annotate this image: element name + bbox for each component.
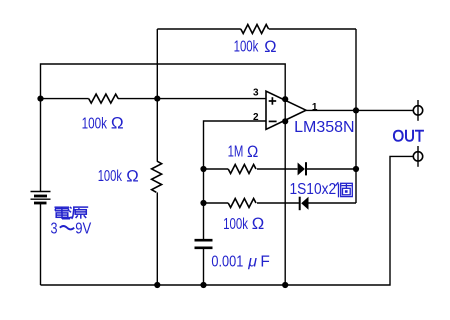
wire op-amp V- down to ground: [284, 121, 286, 285]
svg-text:1: 1: [312, 102, 318, 113]
wire 1M branch: [204, 168, 357, 170]
value label R3 100k: [234, 37, 277, 56]
terminal J1 OUT hot: [413, 100, 422, 121]
node divider tap left: [37, 96, 43, 102]
svg-text:1S10x2: 1S10x2: [290, 181, 337, 198]
resistor R1 100k (divider upper): [89, 94, 119, 103]
svg-text:Ω: Ω: [126, 166, 139, 185]
node ground op-amp: [282, 282, 288, 288]
capacitor C1 0.001uF: [195, 240, 213, 248]
diode D2 (100k branch, anode right): [300, 197, 309, 211]
value label R4 1M: [228, 142, 259, 161]
label 3-9V: [51, 221, 92, 238]
wire 100k branch: [204, 202, 357, 204]
svg-text:0.001: 0.001: [211, 253, 243, 270]
svg-text:9V: 9V: [75, 221, 92, 238]
wire pin2 to node C: [204, 121, 266, 240]
wire op-amp V+ supply through triangle: [284, 100, 286, 121]
node diode D1 junction: [353, 166, 359, 172]
resistor R5 100k (discharge branch): [228, 199, 256, 208]
diode D1 (1M branch, anode left): [298, 162, 306, 175]
resistor R4 1M: [228, 165, 256, 174]
terminal J2 OUT ground: [413, 146, 422, 167]
svg-text:100k: 100k: [82, 116, 108, 133]
kanji DEN: [55, 207, 70, 219]
wire node C below capacitor to ground: [203, 248, 205, 285]
svg-text:1M: 1M: [228, 143, 244, 160]
node ground C: [200, 282, 206, 288]
svg-text:Ω: Ω: [247, 142, 258, 161]
node C 1M junction: [200, 166, 206, 172]
wire right vertical (output to diodes): [355, 29, 357, 203]
node V+ at op-amp: [282, 96, 288, 102]
kanji KO (piece counter) drawn strokes: [335, 182, 352, 197]
svg-text:100k: 100k: [223, 216, 248, 233]
op-amp U1 LM358N triangle: [266, 91, 306, 129]
svg-text:3: 3: [51, 221, 58, 238]
label D1 D2 1S10x2pcs: [290, 181, 353, 198]
svg-text:OUT: OUT: [393, 128, 425, 146]
svg-text:F: F: [260, 253, 269, 270]
wire top feedback rail: [157, 28, 356, 30]
value label R5 100k: [223, 214, 264, 233]
svg-text:Ω: Ω: [264, 37, 276, 56]
value label R2 100k: [98, 166, 139, 185]
wire op-amp output to OUT terminal: [306, 109, 413, 111]
node C 100k junction: [200, 200, 206, 206]
node V- at op-amp: [282, 118, 288, 124]
node A junction: [154, 96, 160, 102]
resistor R3 100k (positive feedback): [241, 25, 269, 34]
svg-text:Ω: Ω: [111, 114, 124, 133]
wire left vertical upper (battery + to top rail): [41, 64, 286, 192]
svg-text:100k: 100k: [98, 168, 122, 185]
battery BT1: [31, 192, 51, 204]
label power source (kanji DENGEN): [55, 207, 89, 219]
kanji GEN: [69, 207, 89, 219]
wire left vertical lower (battery - to ground rail): [40, 203, 42, 285]
resistor R2 100k (divider lower, vertical): [152, 161, 162, 192]
node output junction: [353, 107, 359, 113]
svg-text:Ω: Ω: [252, 214, 265, 233]
value label R1 100k: [82, 114, 124, 133]
wire ground rail bottom: [41, 156, 414, 285]
svg-text:μ: μ: [247, 253, 257, 270]
svg-text:3: 3: [253, 88, 259, 99]
node ground A: [154, 282, 160, 288]
wire node B horizontal (V+ to pin3): [41, 98, 266, 100]
wire middle vertical node A: [156, 29, 158, 285]
svg-text:100k: 100k: [234, 39, 259, 56]
value label C1 0.001uF: [211, 253, 269, 270]
svg-text:LM358N: LM358N: [294, 119, 355, 136]
svg-text:2: 2: [253, 112, 259, 123]
